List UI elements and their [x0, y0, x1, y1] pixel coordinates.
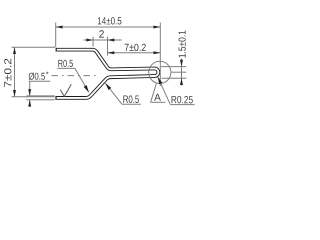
dimension line 2 [84, 39, 122, 41]
extension line left end [55, 23, 57, 48]
arrow dim 7 top right [154, 51, 161, 54]
arrow dia 0.5 lower [28, 100, 31, 107]
arrow dim 14 right [154, 26, 161, 29]
dimension line 7 top [108, 52, 161, 54]
extension line stack top [161, 66, 186, 68]
extension line bottom arm [12, 96, 55, 98]
arrow dim 7 left lower [13, 90, 16, 97]
wire clip part outline [55, 50, 158, 98]
dimension text 14±0.5 [98, 17, 122, 24]
arrow dim 2 left [86, 39, 93, 42]
arrow dim 7 top left [108, 51, 115, 54]
arrow leader R0.5 lower [104, 82, 111, 90]
extension line wire top [26, 95, 55, 97]
leader shaft dia 0.5 lower [29, 100, 31, 106]
radius label R0.5 lower [123, 95, 139, 103]
arrow leader R0.25 [156, 76, 162, 84]
arrow dim 1.5 upper [180, 60, 183, 67]
arrow dim 7 left upper [13, 47, 16, 54]
radius label R0.5 upper [58, 60, 73, 67]
dimension text 2 [99, 30, 104, 37]
extension line stack bottom [162, 77, 187, 79]
extension line bend end [107, 37, 109, 56]
centerline (dash-dot) [52, 75, 98, 77]
dimension line 1.5 [181, 59, 183, 86]
extension line tip [159, 23, 161, 87]
dimension text 1.5±0.1 (rotated) [179, 31, 186, 58]
extension line wire bottom [26, 99, 55, 101]
shelf R0.25 [170, 104, 194, 106]
arrow leader R0.5 upper [84, 85, 91, 93]
label shelf dia 0.5 [29, 80, 51, 82]
extension line top arm [12, 46, 56, 48]
extension line bend start [92, 37, 94, 47]
dimension text 7±0.2 top [125, 44, 146, 51]
leader R0.5 upper-left [75, 68, 89, 92]
arrow dim 2 right [108, 39, 115, 42]
dimension text 7±0.2 left (rotated) [4, 59, 11, 87]
leader R0.5 lower [105, 83, 122, 104]
centerline stub right of circle [171, 71, 186, 73]
arrow dim 1.5 lower [180, 78, 183, 85]
detail label A [154, 94, 161, 101]
radius label R0.25 tip [172, 96, 193, 103]
leader shaft dia 0.5 upper [29, 81, 31, 96]
wire diameter label Ø0.5* [29, 73, 45, 81]
arrow dia 0.5 upper [28, 89, 31, 96]
shelf R0.5 upper-left [57, 67, 75, 69]
dimension line 7 left [14, 47, 16, 97]
leader R0.25 [158, 77, 171, 105]
surface roughness mark [60, 84, 71, 96]
shelf detail A [151, 101, 166, 103]
arrow dim 14 left [56, 26, 63, 29]
detail view circle A [149, 61, 171, 83]
dimension line 14 [56, 26, 161, 28]
leader detail A [151, 83, 157, 102]
shelf R0.5 lower [122, 103, 141, 105]
